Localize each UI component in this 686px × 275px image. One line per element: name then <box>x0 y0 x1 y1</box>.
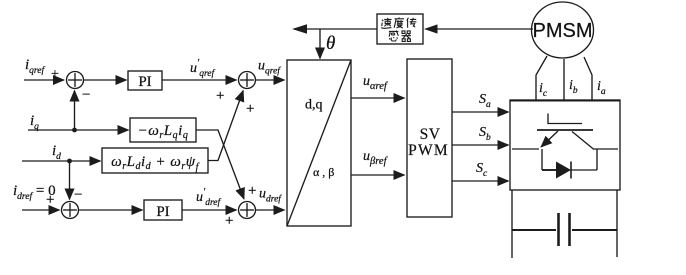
diode D1 <box>556 162 571 179</box>
speed sensor box <box>377 14 423 44</box>
junction dot on id wire <box>67 159 72 164</box>
wire PI2 to SJ5 <box>182 209 237 211</box>
wire theta into dq block <box>319 29 321 59</box>
wire Sc <box>452 180 509 182</box>
svg-text:+: + <box>216 88 224 104</box>
wire ubeta-ref <box>351 174 405 176</box>
svg-text:α , β: α , β <box>313 165 334 179</box>
block wLdid+wpsif <box>102 148 208 173</box>
summing junction SJ2 <box>239 72 256 89</box>
wire phase c <box>536 56 547 100</box>
wire SJ4 to PI2 <box>79 209 143 211</box>
wire diode bottom right <box>571 169 597 171</box>
IGBT Q1 emitter with arrow <box>541 131 558 147</box>
summing junction SJ1 <box>67 72 84 89</box>
block -wLqiq <box>130 118 196 142</box>
svg-text:SV: SV <box>420 126 441 143</box>
svg-text:u′qref: u′qref <box>190 58 215 79</box>
svg-text:PI: PI <box>156 204 169 220</box>
dq to alpha-beta transform block U-DQ <box>287 60 351 226</box>
SVPWM block U-SVPWM <box>407 59 452 217</box>
wire PI1 to SJ2 <box>162 79 237 81</box>
wire -wLqiq output stub <box>196 130 244 199</box>
svg-text:uβref: uβref <box>363 149 389 167</box>
svg-text:−: − <box>82 87 90 103</box>
svg-text:θ: θ <box>326 33 335 54</box>
wire iqref input <box>24 79 64 81</box>
label speed sensor chinese text <box>381 17 416 41</box>
svg-text:ωrLdid + ωrψf: ωrLdid + ωrψf <box>111 154 199 173</box>
svg-text:Sa: Sa <box>479 92 491 110</box>
svg-text:id: id <box>52 143 61 162</box>
svg-text:d,q: d,q <box>305 98 323 113</box>
svg-text:+: + <box>51 67 59 82</box>
svg-text:PI: PI <box>138 74 151 90</box>
wire SJ5 to dq block <box>256 209 285 211</box>
wire diode loop left <box>541 149 543 170</box>
wire dc link bottom right <box>572 229 617 231</box>
wire SJ2 to dq block <box>256 79 285 81</box>
summing junction SJ4 <box>62 202 79 219</box>
wire collector rail right <box>594 148 618 150</box>
IGBT Q1 body bar <box>537 129 593 131</box>
wire dc link right <box>616 190 618 257</box>
wire diode loop right <box>596 149 598 170</box>
wire wLdid output stub <box>208 91 243 161</box>
wire emitter rail left <box>512 148 539 150</box>
summing junction SJ5 <box>239 202 256 219</box>
wire Sb <box>452 144 509 146</box>
svg-text:uqref: uqref <box>258 59 281 77</box>
PI controller PI2 <box>144 200 182 220</box>
wire iq feedback up to SJ1 <box>74 91 76 131</box>
inverter box U-INV <box>510 100 620 190</box>
wire idref input <box>22 209 60 211</box>
IGBT Q1 gate lead <box>548 114 582 124</box>
svg-text:Sc: Sc <box>476 161 488 179</box>
wire phase a <box>584 57 592 100</box>
svg-text:−ωrLqiq: −ωrLqiq <box>138 123 189 141</box>
svg-text:ia: ia <box>597 79 606 97</box>
wire speed sensor to left output <box>303 28 377 30</box>
capacitor C1 <box>559 213 570 246</box>
svg-text:+: + <box>225 213 233 229</box>
svg-text:+: + <box>46 192 54 208</box>
svg-text:uαref: uαref <box>363 74 389 92</box>
wire SJ1 to PI1 <box>84 79 127 81</box>
wire PMSM to speed sensor <box>434 28 533 30</box>
wire phase b <box>563 59 565 100</box>
wire dc link left <box>511 190 513 258</box>
wire Sa <box>452 111 509 113</box>
IGBT Q1 collector <box>572 132 594 150</box>
svg-text:+: + <box>246 101 254 117</box>
svg-text:iq: iq <box>30 113 39 132</box>
wire ualpha-ref <box>351 97 405 99</box>
wire iq input <box>28 129 129 131</box>
svg-text:Sb: Sb <box>479 125 491 143</box>
svg-text:udref: udref <box>259 187 282 205</box>
wire id input <box>22 160 101 162</box>
svg-text:−: − <box>74 187 82 203</box>
PMSM motor M1 <box>532 2 594 58</box>
svg-text:ic: ic <box>539 81 548 99</box>
svg-text:PWM: PWM <box>408 142 449 159</box>
wire id feedback down to SJ4 <box>69 161 71 200</box>
svg-text:ib: ib <box>569 78 578 96</box>
PI controller PI1 <box>128 71 162 90</box>
svg-text:u′dref: u′dref <box>196 187 221 208</box>
wire diode bottom left <box>542 169 556 171</box>
svg-text:PMSM: PMSM <box>533 20 593 42</box>
junction dot on iq wire <box>72 128 77 133</box>
svg-text:+: + <box>248 183 256 199</box>
svg-text:iqref: iqref <box>25 57 45 76</box>
wire dc link bottom left <box>512 229 556 231</box>
